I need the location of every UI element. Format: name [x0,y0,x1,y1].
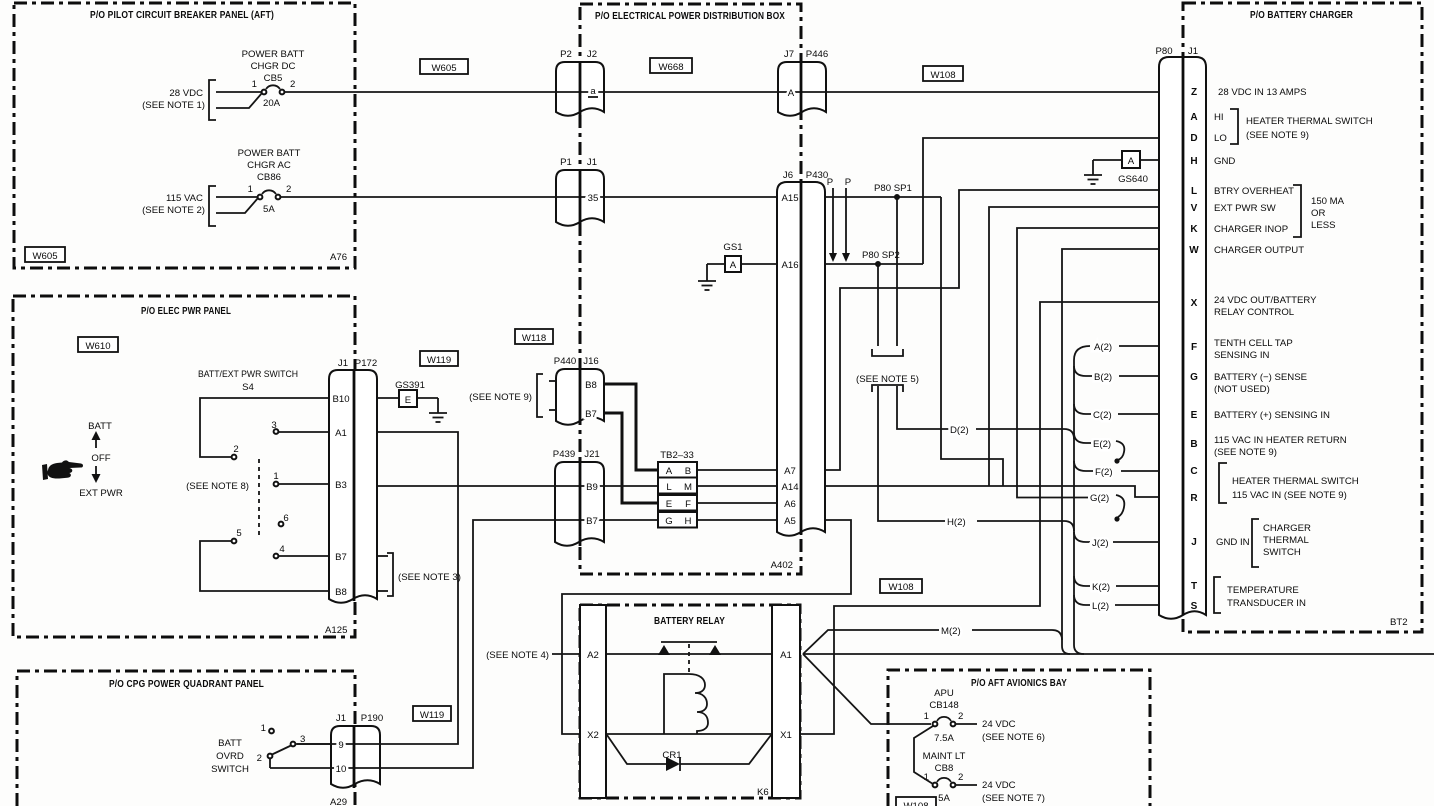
svg-text:(SEE NOTE 3): (SEE NOTE 3) [398,572,461,583]
wire contact 4 to B7 [279,555,329,557]
relay right terminal bar A1/X1 [772,605,800,798]
cable label W108 (center) [880,579,922,593]
wire F(2) to charger C [1121,470,1159,472]
wire B3 to B9 to TB2-33 L [377,485,658,487]
svg-text:K(2): K(2) [1092,582,1110,593]
svg-text:P190: P190 [361,713,383,724]
cable label W108 (top right) [923,66,963,81]
svg-text:A76: A76 [330,252,347,263]
node P80 SP1 [874,183,912,200]
pigtail G(2) [1116,495,1124,517]
svg-text:BATT/EXT PWR SWITCH: BATT/EXT PWR SWITCH [198,369,298,380]
svg-text:HEATER THERMAL SWITCH: HEATER THERMAL SWITCH [1246,116,1373,127]
wire battery trunk down to off-sheet right [1074,346,1090,654]
connector J6/P430 (dist box) [777,182,825,536]
svg-text:CB148: CB148 [929,700,958,711]
wire charger W down to battery bus [1062,249,1159,654]
svg-text:A14: A14 [781,482,799,493]
hand pointer icon [42,460,83,480]
svg-text:A6: A6 [784,499,796,510]
connector J7/P446 [778,62,826,116]
svg-text:P/O PILOT CIRCUIT BREAKER PANE: P/O PILOT CIRCUIT BREAKER PANEL (AFT) [90,10,274,21]
svg-text:CHGR AC: CHGR AC [247,160,291,171]
wire relay A2 to A1 [606,653,772,655]
svg-text:2: 2 [290,79,295,90]
svg-text:28 VDC IN 13 AMPS: 28 VDC IN 13 AMPS [1218,87,1307,98]
svg-text:E: E [666,499,672,510]
svg-text:P1: P1 [560,157,572,168]
wire trunk tap J(2) [1074,532,1090,542]
svg-text:(SEE NOTE 8): (SEE NOTE 8) [186,481,249,492]
svg-text:SWITCH: SWITCH [1263,547,1301,558]
svg-text:W108: W108 [888,582,913,593]
svg-text:1: 1 [261,723,266,734]
svg-text:P/O ELEC PWR PANEL: P/O ELEC PWR PANEL [141,306,231,317]
svg-text:H: H [1190,156,1197,167]
cable label W610 [78,337,118,352]
svg-text:(NOT USED): (NOT USED) [1214,384,1270,395]
panel: P/O ELEC PWR PANEL [13,296,355,637]
wire 28VDC CB5 to charger Z (through P2/J2, J7/P446) [284,91,1159,93]
svg-text:E(2): E(2) [1093,439,1111,450]
svg-text:GND: GND [1214,156,1235,167]
svg-text:(SEE NOTE 7): (SEE NOTE 7) [982,793,1045,804]
cable label W119 (upper) [420,351,458,366]
svg-text:B3: B3 [335,480,347,491]
svg-text:HI: HI [1214,112,1224,123]
switch position legend BATT/OFF/EXT PWR [79,421,123,499]
svg-text:EXT PWR: EXT PWR [79,488,123,499]
svg-text:24 VDC OUT/BATTERY: 24 VDC OUT/BATTERY [1214,295,1317,306]
wire shield lower-left leg to H(2) [878,386,945,521]
wire GS1 to A16 [741,263,777,265]
svg-text:M: M [684,482,692,493]
svg-text:A: A [788,88,795,99]
svg-text:L(2): L(2) [1092,601,1109,612]
svg-text:B8: B8 [335,587,347,598]
svg-text:A: A [1128,156,1135,167]
svg-text:P/O ELECTRICAL POWER DISTRIBUT: P/O ELECTRICAL POWER DISTRIBUTION BOX [595,11,785,22]
wire relay X2 to X1 [606,733,772,735]
wire relay A1 diag to M(2) [803,630,939,654]
svg-text:1: 1 [273,471,278,482]
svg-text:EXT PWR SW: EXT PWR SW [1214,203,1277,214]
svg-text:5: 5 [236,528,241,539]
svg-text:CHGR DC: CHGR DC [251,61,296,72]
connector P80/J1 (battery charger) [1159,57,1206,619]
svg-text:J: J [1191,537,1197,548]
wire L(2) to charger S [1115,604,1159,606]
svg-text:24 VDC: 24 VDC [982,719,1016,730]
svg-text:2: 2 [286,184,291,195]
cable label W119 (lower, CPG) [413,706,451,721]
svg-text:T: T [1191,581,1197,592]
svg-text:HEATER THERMAL SWITCH: HEATER THERMAL SWITCH [1232,476,1359,487]
svg-text:H: H [685,516,692,527]
diode CR1 [607,735,771,771]
wire M(2) merge into bus [972,630,1062,640]
svg-text:P: P [845,177,851,188]
note 9 bracket at P440 [469,374,556,417]
svg-text:115 VAC IN HEATER RETURN: 115 VAC IN HEATER RETURN [1214,435,1347,446]
svg-text:B10: B10 [332,394,349,405]
wire GS391 to ground [417,397,438,399]
svg-text:S4: S4 [242,382,254,393]
svg-text:J7: J7 [784,49,794,60]
wire trunk tap L(2) [1074,595,1090,605]
svg-text:X: X [1191,298,1198,309]
svg-text:GS640: GS640 [1118,174,1148,185]
wire SP1 drop to shield note5 [896,197,898,346]
svg-text:B7: B7 [585,409,597,420]
wire A(2) to charger F [1119,345,1159,347]
svg-text:APU: APU [934,688,954,699]
pigtail E(2) [1116,441,1124,460]
svg-text:P80: P80 [1155,46,1172,57]
svg-text:R: R [1190,493,1198,504]
panel: P/O AFT AVIONICS BAY [888,670,1150,806]
svg-text:D(2): D(2) [950,425,969,436]
wire TB2-33 B to A7 [697,469,777,471]
wire B7(J16) to TB2-33 E [604,413,658,503]
wire A16 to P80 SP2 then corner [825,263,923,265]
svg-text:SENSING IN: SENSING IN [1214,350,1270,361]
svg-text:W118: W118 [522,333,546,344]
wire C(2) to charger E [1118,413,1159,415]
svg-text:A(2): A(2) [1094,342,1112,353]
svg-text:A125: A125 [325,625,347,636]
svg-text:X1: X1 [780,730,792,741]
wire contact 3 to A1 [279,431,329,433]
svg-text:C: C [1190,466,1197,477]
svg-text:P440: P440 [554,356,576,367]
switch S4 BATT/EXT PWR [186,369,298,558]
svg-text:(SEE NOTE 9): (SEE NOTE 9) [469,392,532,403]
svg-text:A16: A16 [781,260,798,271]
svg-text:BATTERY (−) SENSE: BATTERY (−) SENSE [1214,372,1307,383]
svg-text:LO: LO [1214,133,1227,144]
svg-text:BATT: BATT [88,421,112,432]
relay contact with arrows [658,642,721,672]
svg-text:GND IN: GND IN [1216,537,1250,548]
svg-text:GS1: GS1 [723,242,742,253]
svg-text:115 VAC IN (SEE NOTE 9): 115 VAC IN (SEE NOTE 9) [1232,490,1347,501]
svg-text:9: 9 [338,740,343,751]
connector P440/J16 [556,369,604,425]
svg-text:D: D [1190,133,1197,144]
svg-text:P/O BATTERY CHARGER: P/O BATTERY CHARGER [1250,10,1353,21]
svg-text:Z: Z [1191,87,1197,98]
svg-text:(SEE NOTE 5): (SEE NOTE 5) [856,374,919,385]
svg-text:CR1: CR1 [662,750,681,761]
svg-text:F(2): F(2) [1095,467,1113,478]
node P80 SP2 [862,250,900,267]
svg-text:LESS: LESS [1311,220,1336,231]
svg-text:BATTERY (+) SENSING IN: BATTERY (+) SENSING IN [1214,410,1330,421]
svg-text:A7: A7 [784,466,796,477]
svg-text:C(2): C(2) [1093,410,1112,421]
svg-text:A: A [666,466,673,477]
svg-text:1: 1 [248,184,253,195]
wire A14 row to R-pin step [825,486,1159,497]
ground GS1 [698,242,743,290]
svg-text:J(2): J(2) [1092,538,1109,549]
svg-text:J6: J6 [783,170,793,181]
svg-text:BATT: BATT [218,738,242,749]
svg-text:W108: W108 [903,801,928,806]
svg-text:(SEE NOTE 9): (SEE NOTE 9) [1246,130,1309,141]
svg-text:a: a [590,86,596,97]
svg-text:TEMPERATURE: TEMPERATURE [1227,585,1299,596]
panel: BATTERY RELAY [580,605,800,798]
svg-text:W668: W668 [658,62,683,73]
svg-text:(SEE NOTE 4): (SEE NOTE 4) [486,650,549,661]
svg-text:SWITCH: SWITCH [211,764,249,775]
panel: P/O CPG POWER QUADRANT PANEL [17,671,355,806]
svg-text:B7: B7 [586,516,598,527]
svg-text:J16: J16 [583,356,598,367]
svg-text:K: K [1190,224,1198,235]
svg-text:P2: P2 [560,49,572,60]
svg-text:W610: W610 [85,341,110,352]
svg-text:CB8: CB8 [935,763,954,774]
wire B10 to GS391 [377,397,399,399]
svg-text:3: 3 [271,420,276,431]
cable label W118 [515,329,553,344]
connector P190/J1 (CPG) [331,726,380,788]
svg-text:A1: A1 [780,650,792,661]
ground GS640 [1084,151,1159,185]
svg-text:K6: K6 [757,787,769,798]
svg-text:3: 3 [300,734,305,745]
shield termination note 5 [856,349,919,392]
svg-text:W605: W605 [431,63,456,74]
svg-text:J1: J1 [338,358,348,369]
svg-text:5A: 5A [938,793,950,804]
wire trunk tap C(2) [1074,404,1091,414]
connector P1/J1 [556,170,604,226]
svg-text:M(2): M(2) [941,626,961,637]
svg-text:W108: W108 [930,70,955,81]
wire TB2-33 F to A6 [697,502,777,504]
wire contact 5 to B8 [200,541,329,591]
wire CPG pin10 to B7(J21) and TB2-33 G [270,520,658,768]
wire A7 to charger L (BTRY OVERHEAT) [825,190,1159,470]
svg-text:J1: J1 [1188,46,1198,57]
svg-text:J2: J2 [587,49,597,60]
wire charger K to G(2) label [1017,228,1159,498]
svg-text:7.5A: 7.5A [934,733,954,744]
svg-text:B9: B9 [586,482,598,493]
wire A15 to P80 SP1 corner [825,196,941,198]
svg-text:H(2): H(2) [947,517,966,528]
svg-text:P/O AFT AVIONICS BAY: P/O AFT AVIONICS BAY [971,678,1067,689]
wire B8(J16) to TB2-33 A (heavy) [604,384,658,470]
wire B10 to switch contact 2 [200,398,329,457]
svg-text:F: F [1191,342,1197,353]
svg-text:F: F [685,499,691,510]
svg-text:A2: A2 [587,650,599,661]
svg-text:2: 2 [233,444,238,455]
svg-text:CHARGER: CHARGER [1263,523,1311,534]
wire charger X to relay X1 [800,302,1159,734]
phase arrows P P [827,177,851,262]
terminal block TB2-33 [658,450,697,528]
svg-text:(SEE NOTE 6): (SEE NOTE 6) [982,732,1045,743]
svg-text:P80 SP1: P80 SP1 [874,183,912,194]
wire battery bus off-sheet to right edge [803,653,1434,655]
svg-text:X2: X2 [587,730,599,741]
svg-text:BT2: BT2 [1390,617,1408,628]
circuit breaker CB5 [142,49,304,120]
svg-text:G: G [665,516,672,527]
svg-text:V: V [1191,203,1198,214]
svg-text:TB2–33: TB2–33 [660,450,694,461]
svg-text:4: 4 [279,544,285,555]
wire B(2) to charger G [1119,375,1159,377]
svg-text:L: L [1191,186,1197,197]
wire trunk tap B(2) [1074,366,1092,376]
svg-text:CB5: CB5 [264,73,283,84]
cable label W605 (top) [420,59,468,74]
svg-text:OR: OR [1311,208,1325,219]
svg-text:W605: W605 [32,251,57,262]
svg-text:CHARGER OUTPUT: CHARGER OUTPUT [1214,245,1304,256]
svg-text:1: 1 [924,711,929,722]
wire K(2) to charger T [1116,585,1159,587]
svg-text:5A: 5A [263,204,275,215]
svg-text:150 MA: 150 MA [1311,196,1345,207]
svg-text:P439: P439 [553,449,575,460]
panel: P/O BATTERY CHARGER [1183,3,1422,632]
svg-text:10: 10 [336,764,347,775]
wire H(2) to trunk [977,521,1074,531]
wire 115VAC CB6 to dist A15 (through P1/J1) [280,196,777,198]
cable label W668 [650,58,692,73]
svg-text:B: B [1190,439,1197,450]
wire A5 to relay X2 [562,520,851,734]
svg-text:E: E [1191,410,1198,421]
connector P172/J1 (elec pwr panel) [329,370,377,603]
svg-text:G(2): G(2) [1090,493,1109,504]
relay coil [662,674,708,761]
svg-text:OVRD: OVRD [216,751,244,762]
svg-text:A29: A29 [330,797,347,806]
svg-text:J21: J21 [584,449,599,460]
wire relay A1 diag to APU CB148 [803,654,931,724]
svg-text:20A: 20A [263,98,281,109]
svg-text:6: 6 [283,513,288,524]
wire contact 1 to B3 [279,483,329,485]
svg-text:28 VDC: 28 VDC [169,88,203,99]
svg-text:OFF: OFF [91,453,110,464]
svg-text:J1: J1 [587,157,597,168]
cable label W605 (bottom of pilot panel) [25,247,65,262]
svg-text:BTRY OVERHEAT: BTRY OVERHEAT [1214,186,1294,197]
svg-text:A15: A15 [781,193,798,204]
wire charger V vertical [989,207,1159,486]
svg-text:A1: A1 [335,428,347,439]
svg-text:(SEE NOTE 9): (SEE NOTE 9) [1214,447,1277,458]
wire shield lower-right leg to D(2) [897,386,949,429]
wire trunk tap K(2) [1074,576,1090,586]
svg-text:L: L [666,482,672,493]
connector P2/J2 [556,62,604,116]
note 3 bracket at B7/B8 [377,553,461,596]
circuit breaker CB86 [142,148,300,226]
cable label W108 (bottom, avionics bay) [896,797,936,806]
svg-text:2: 2 [257,753,262,764]
svg-text:A402: A402 [771,560,793,571]
svg-text:POWER BATT: POWER BATT [242,49,305,60]
wire TB2-33 H to A5 [697,519,777,521]
svg-text:TRANSDUCER IN: TRANSDUCER IN [1227,598,1306,609]
wire A15 branch down at 941 [941,197,1003,486]
svg-text:A5: A5 [784,516,796,527]
circuit breaker APU CB148 [924,688,1045,744]
svg-text:B: B [685,466,691,477]
svg-text:35: 35 [588,193,599,204]
svg-text:BATTERY RELAY: BATTERY RELAY [654,616,725,627]
svg-text:W: W [1189,245,1199,256]
panel: P/O PILOT CIRCUIT BREAKER PANEL (AFT) [14,3,355,268]
wire trunk tap E(2) [1074,433,1091,443]
wire SP2 up to charger D pin [923,138,1159,264]
svg-text:P430: P430 [806,170,828,181]
wire SP2 drop to shield note5 [877,264,879,346]
svg-text:P80 SP2: P80 SP2 [862,250,900,261]
wire D(2) to trunk merge [976,429,1074,439]
svg-text:A: A [730,260,737,271]
svg-text:E: E [405,395,411,406]
CPG switch BATT OVRD [211,723,331,775]
svg-text:P/O CPG POWER QUADRANT PANEL: P/O CPG POWER QUADRANT PANEL [109,679,264,690]
wire A1(P172) to CPG pin9 [297,432,458,744]
svg-text:2: 2 [958,711,963,722]
panel: P/O ELECTRICAL POWER DISTRIBUTION BOX [580,4,801,574]
svg-text:POWER BATT: POWER BATT [238,148,301,159]
svg-text:W119: W119 [427,355,451,366]
svg-text:G: G [1190,372,1198,383]
svg-text:CB86: CB86 [257,172,281,183]
relay left terminal bar A2/X2 [580,605,606,798]
svg-text:CHARGER INOP: CHARGER INOP [1214,224,1288,235]
svg-text:B8: B8 [585,380,597,391]
svg-text:B7: B7 [335,552,347,563]
svg-text:J1: J1 [336,713,346,724]
svg-text:2: 2 [958,772,963,783]
connector divider lines [579,62,582,116]
wire TB2-33 M to A14 [697,485,777,487]
connector P439/J21 [555,462,604,546]
svg-text:P172: P172 [355,358,377,369]
svg-text:24 VDC: 24 VDC [982,780,1016,791]
svg-text:(SEE NOTE 2): (SEE NOTE 2) [142,205,205,216]
svg-text:B(2): B(2) [1094,372,1112,383]
circuit breaker MAINT LT CB8 [914,726,1045,804]
svg-text:W119: W119 [420,710,444,721]
svg-text:TENTH CELL TAP: TENTH CELL TAP [1214,338,1293,349]
wire trunk tap F(2) [1074,461,1093,471]
ground GS391 [395,380,447,422]
svg-text:MAINT LT: MAINT LT [923,751,966,762]
svg-text:115 VAC: 115 VAC [166,193,203,204]
wire J(2) to charger J [1113,541,1159,543]
svg-text:RELAY CONTROL: RELAY CONTROL [1214,307,1295,318]
svg-text:1: 1 [252,79,257,90]
wire SEE NOTE 4 to relay A2 [552,653,580,655]
svg-text:A: A [1190,112,1197,123]
